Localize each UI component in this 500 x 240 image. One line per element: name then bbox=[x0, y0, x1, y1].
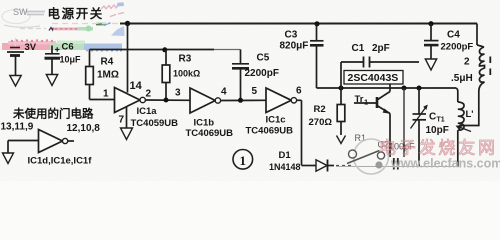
inverter IC1b bbox=[190, 88, 221, 113]
ground unused gates bbox=[3, 153, 14, 164]
node C1 left junction bbox=[339, 86, 344, 91]
capacitor C3 bbox=[310, 24, 324, 88]
transistor Tr1 bbox=[354, 85, 390, 158]
svg-text:270Ω: 270Ω bbox=[309, 117, 333, 128]
switch SW faint symbol bbox=[2, 10, 40, 28]
svg-text:IC1a: IC1a bbox=[137, 106, 158, 117]
svg-text:6: 6 bbox=[296, 86, 302, 97]
scan artifact pink band bbox=[2, 39, 56, 50]
svg-text:2pF: 2pF bbox=[372, 43, 390, 54]
L prime lower lead bbox=[457, 130, 459, 167]
svg-text:12,10,8: 12,10,8 bbox=[67, 123, 101, 134]
wire L2 bottom return bbox=[459, 82, 485, 126]
svg-text:R3: R3 bbox=[179, 54, 192, 65]
capacitor C6 bbox=[45, 46, 61, 75]
ground below C6 bbox=[46, 75, 57, 86]
node R3 top junction bbox=[162, 47, 167, 52]
diode D1 1N4148 bbox=[316, 160, 352, 172]
svg-text:.5μH: .5μH bbox=[451, 73, 473, 84]
capacitor C4 bbox=[424, 24, 439, 59]
scan artifact pink dashes right of title bbox=[110, 13, 124, 17]
svg-text:C5: C5 bbox=[257, 53, 270, 64]
L prime adjust arrow bbox=[456, 125, 472, 131]
wire IC1c out down to diode bbox=[297, 100, 316, 165]
inverter IC1d unused bbox=[39, 130, 75, 153]
svg-text:C6: C6 bbox=[62, 42, 74, 53]
wire bus corner to L prime bbox=[456, 88, 458, 102]
trimmer arrowhead bbox=[423, 105, 428, 111]
svg-text:C: C bbox=[429, 112, 436, 123]
svg-text:10pF: 10pF bbox=[426, 125, 449, 136]
wire IC1b out to IC1c in bbox=[221, 99, 266, 101]
watermark logo circle bbox=[354, 139, 389, 174]
svg-text:2200pF: 2200pF bbox=[245, 68, 279, 79]
scan artifact blue blob top bbox=[117, 2, 125, 6]
svg-text:SW: SW bbox=[13, 7, 28, 17]
scan artifact pink zigzag top bbox=[101, 5, 118, 9]
svg-text:1N4148: 1N4148 bbox=[269, 162, 301, 172]
node marker circle 1 bbox=[233, 150, 253, 170]
faded wire from switch to rail bbox=[16, 24, 119, 48]
svg-text:C3: C3 bbox=[285, 30, 298, 41]
pin 7 lead bbox=[126, 107, 128, 128]
wire VDD drop to pin 14 bbox=[127, 24, 129, 93]
switch faint contact dashes bbox=[26, 12, 45, 15]
capacitor C2 plates bbox=[394, 158, 398, 170]
svg-text:4: 4 bbox=[221, 87, 227, 98]
node R3 bottom junction bbox=[164, 98, 169, 103]
svg-text:100kΩ: 100kΩ bbox=[173, 69, 200, 79]
wire feedback bus bbox=[90, 49, 215, 51]
svg-text:未使用的门电路: 未使用的门电路 bbox=[12, 107, 94, 121]
scan artifact green dash bbox=[96, 23, 106, 26]
node rail junction C3 bbox=[314, 21, 319, 26]
scan artifact green stripe bbox=[78, 26, 93, 32]
watermark logo small circle A bbox=[349, 150, 357, 158]
inverter IC1a bbox=[115, 88, 146, 113]
svg-text:TC4069UB: TC4069UB bbox=[186, 128, 234, 139]
resistor R3 bbox=[162, 50, 170, 101]
wire top supply rail bbox=[120, 23, 477, 25]
battery B1 3V bbox=[7, 48, 24, 76]
svg-text:T1: T1 bbox=[437, 117, 445, 124]
svg-text:电子发烧友网: 电子发烧友网 bbox=[379, 139, 498, 158]
wire rail right corner down bbox=[477, 24, 484, 48]
arrow below R2 bbox=[337, 136, 346, 144]
input wire unused gates bbox=[8, 141, 39, 153]
svg-text:L': L' bbox=[466, 109, 474, 120]
scan artifact blue tick bbox=[104, 23, 111, 25]
svg-text:2: 2 bbox=[464, 57, 470, 68]
svg-text:1: 1 bbox=[103, 89, 109, 100]
svg-text:电源开关: 电源开关 bbox=[48, 6, 104, 21]
scan artifact thin pink stripe bbox=[53, 28, 79, 31]
watermark logo needle bbox=[347, 151, 380, 164]
inverter IC1c bbox=[266, 88, 297, 113]
svg-text:R1: R1 bbox=[355, 133, 367, 143]
svg-text:R2: R2 bbox=[314, 104, 326, 115]
ground below battery bbox=[10, 76, 21, 87]
inductor L prime bbox=[458, 102, 464, 130]
resistor R2 bbox=[337, 88, 345, 135]
svg-text:R4: R4 bbox=[101, 57, 114, 68]
wire bottom rail faint bbox=[336, 166, 458, 168]
svg-text:5: 5 bbox=[252, 86, 258, 97]
trimmer capacitor CT1 bbox=[411, 88, 428, 167]
node C5 bottom junction bbox=[238, 98, 243, 103]
svg-text:IC1c: IC1c bbox=[266, 115, 286, 126]
svg-text:D1: D1 bbox=[279, 150, 292, 161]
watermark logo gray ball bbox=[375, 161, 382, 168]
wire oscillator bus y88 bbox=[317, 87, 457, 89]
label box 2SC4043S bbox=[344, 71, 403, 85]
svg-text:1: 1 bbox=[364, 98, 368, 107]
svg-text:3V: 3V bbox=[25, 42, 37, 53]
svg-text:10μF: 10μF bbox=[60, 55, 82, 65]
svg-text:7: 7 bbox=[119, 115, 125, 126]
svg-text:www.elecfans.com: www.elecfans.com bbox=[390, 157, 500, 171]
node junction CT1 bbox=[417, 86, 422, 91]
capacitor C1 bbox=[341, 57, 419, 89]
inductor L2 bbox=[479, 47, 484, 82]
svg-text:IC1d,IC1e,IC1f: IC1d,IC1e,IC1f bbox=[28, 156, 93, 167]
L2 core bars bbox=[489, 57, 491, 76]
svg-text:2SC4043S: 2SC4043S bbox=[348, 72, 399, 84]
wire IC1a out to IC1b in bbox=[145, 99, 190, 101]
svg-text:C4: C4 bbox=[447, 30, 460, 41]
node rail junction left bbox=[125, 21, 130, 26]
svg-text:2200pF: 2200pF bbox=[441, 42, 474, 53]
watermark logo small circle B bbox=[377, 152, 384, 159]
ground below C4 bbox=[425, 59, 436, 70]
svg-text:TC4059UB: TC4059UB bbox=[131, 118, 179, 129]
svg-text:14: 14 bbox=[130, 80, 143, 92]
svg-text:Tr: Tr bbox=[355, 94, 364, 105]
emitter arrowhead bbox=[383, 109, 391, 114]
svg-text:820μF: 820μF bbox=[280, 41, 309, 52]
svg-text:2: 2 bbox=[146, 89, 152, 100]
capacitor C5 bbox=[232, 50, 249, 101]
node rail junction C4 bbox=[428, 21, 433, 26]
scan artifact green band bbox=[50, 41, 85, 51]
scan artifact dark mark bbox=[49, 28, 53, 31]
wire x404 down bbox=[403, 88, 405, 157]
node junction x404 bbox=[402, 86, 407, 91]
svg-text:C1: C1 bbox=[352, 43, 365, 54]
svg-text:13,11,9: 13,11,9 bbox=[1, 122, 34, 133]
resistor R4 bbox=[86, 50, 115, 100]
svg-text:3: 3 bbox=[175, 88, 181, 99]
ground pin 7 bbox=[121, 128, 133, 140]
svg-text:IC1b: IC1b bbox=[194, 118, 215, 129]
svg-text:1: 1 bbox=[240, 153, 247, 168]
svg-text:1MΩ: 1MΩ bbox=[97, 70, 119, 81]
scan artifact blue wedge bbox=[111, 26, 125, 36]
scan artifact blue band bbox=[84, 44, 122, 52]
svg-text:TC4069UB: TC4069UB bbox=[246, 126, 294, 137]
